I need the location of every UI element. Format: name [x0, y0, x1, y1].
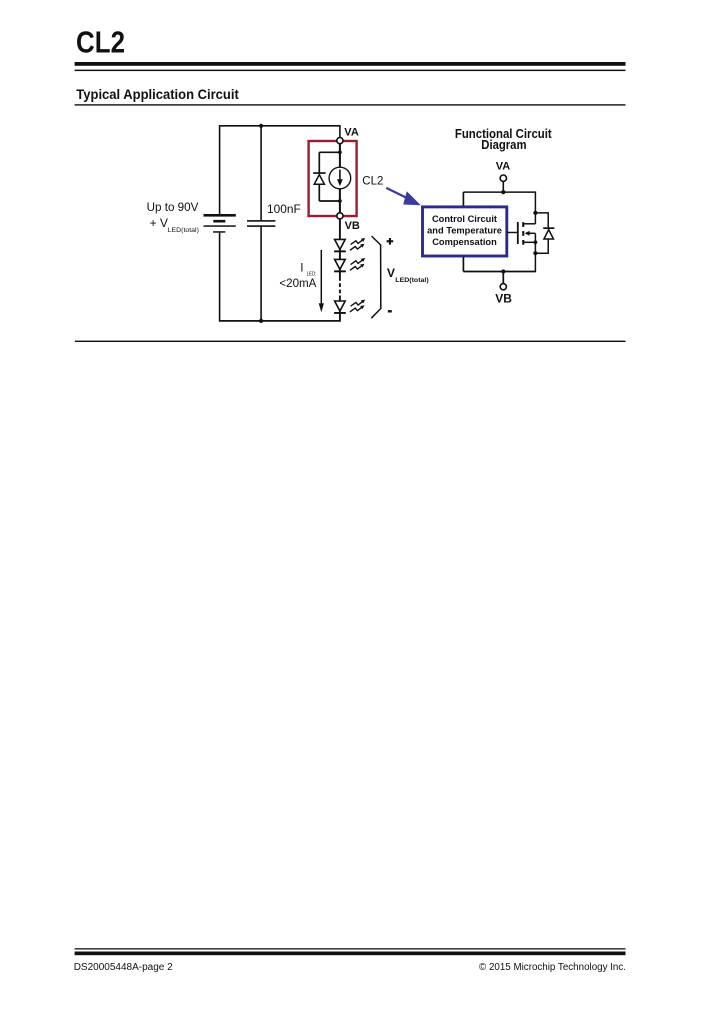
wire bottom rail	[220, 320, 340, 322]
wire capacitor bottom	[260, 227, 262, 321]
wire shunt diode branch left upper	[318, 152, 320, 173]
LED D4 light arrows	[351, 300, 366, 307]
wire shunt diode branch top	[319, 151, 340, 153]
svg-text:Diagram: Diagram	[481, 137, 526, 152]
wire LED chain bottom	[339, 296, 341, 322]
wire diode branch top	[535, 213, 548, 228]
capacitor C1 100nF	[247, 220, 275, 227]
header thin rule	[75, 70, 626, 72]
pointer arrow CL2 to block	[386, 188, 421, 205]
wire LED chain top	[339, 219, 341, 277]
junction bottom rail / capacitor	[259, 319, 263, 323]
svg-text:© 2015 Microchip Technology In: © 2015 Microchip Technology Inc.	[479, 962, 626, 973]
wire main vertical VA branch	[339, 125, 341, 140]
node VB terminal circle	[337, 213, 343, 219]
svg-text:CL2: CL2	[76, 24, 125, 59]
wire capacitor top	[260, 126, 262, 220]
junction diode bottom tap	[533, 251, 537, 255]
wire shunt diode branch bottom	[319, 200, 340, 202]
wire box top	[462, 192, 464, 206]
junction CL2 top	[338, 150, 342, 154]
current arrow ILED	[319, 250, 324, 312]
svg-text:VB: VB	[345, 220, 360, 232]
wire drain vertical	[534, 191, 536, 223]
header thick rule	[75, 62, 626, 66]
label minus	[388, 310, 392, 312]
svg-text:DS20005448A-page 2: DS20005448A-page 2	[74, 962, 173, 973]
LED D3	[334, 259, 346, 272]
svg-text:+ V: + V	[150, 216, 168, 230]
svg-text:Typical Application Circuit: Typical Application Circuit	[76, 86, 239, 102]
svg-text:CL2: CL2	[362, 176, 383, 188]
junction VB rail	[501, 269, 505, 273]
junction VA rail	[501, 190, 505, 194]
svg-text:and Temperature: and Temperature	[427, 226, 502, 236]
svg-text:100nF: 100nF	[267, 203, 301, 216]
bracket VLED(total)	[371, 236, 381, 318]
LED D2 light arrows	[351, 238, 366, 245]
svg-text:VA: VA	[344, 126, 359, 138]
wire top rail	[220, 125, 340, 127]
junction CL2 bottom	[338, 199, 342, 203]
wire shunt diode branch left lower	[318, 184, 320, 201]
transistor Q1 source stub	[524, 241, 535, 243]
transistor Q1 channel segments	[522, 222, 524, 227]
svg-text:Control Circuit: Control Circuit	[432, 214, 497, 224]
svg-text:Up to 90V: Up to 90V	[147, 201, 199, 214]
wire diode branch bottom	[535, 239, 548, 253]
footer thick rule	[75, 952, 626, 956]
svg-text:Compensation: Compensation	[432, 237, 497, 247]
LED D4	[334, 301, 346, 314]
transistor Q1 body stub with arrow	[528, 232, 535, 234]
battery B1	[204, 214, 236, 233]
svg-text:LED(total): LED(total)	[395, 277, 428, 284]
CL2 device red box	[309, 141, 357, 216]
junction top rail / capacitor	[259, 124, 263, 128]
junction diode top tap	[533, 211, 537, 215]
wire battery top	[219, 125, 221, 214]
node VA right terminal	[500, 175, 506, 181]
LED D2	[334, 239, 346, 252]
node VB right terminal	[500, 284, 506, 290]
current source I1	[329, 167, 351, 189]
wire LED chain dashed	[339, 277, 341, 296]
wire top rail right	[463, 191, 535, 193]
node VA terminal circle	[337, 138, 343, 144]
wire VA to top rail	[502, 182, 504, 193]
wire source vertical	[534, 242, 536, 272]
svg-text:I: I	[300, 261, 303, 274]
transistor Q1 gate bar	[517, 222, 519, 244]
wire VB from rail	[502, 272, 504, 284]
mid page rule below figure	[75, 341, 626, 342]
wire bottom rail right	[463, 271, 535, 273]
wire box bottom	[462, 257, 464, 272]
wire battery bottom	[219, 233, 221, 322]
svg-text:LED(total): LED(total)	[168, 227, 199, 234]
section heading rule	[75, 104, 626, 105]
LED D3 light arrows	[351, 258, 366, 265]
wire CL2 internal vertical	[339, 140, 341, 216]
transistor Q1 drain stub	[524, 223, 535, 225]
label plus	[387, 238, 394, 245]
control block U1	[423, 207, 507, 256]
svg-text:VA: VA	[496, 160, 511, 172]
footer thin rule	[75, 948, 626, 949]
svg-text:VB: VB	[495, 292, 512, 306]
junction source stub	[534, 240, 538, 244]
svg-text:<20mA: <20mA	[279, 277, 316, 290]
diode D5 body diode	[543, 227, 554, 239]
diode D1 (internal shunt)	[313, 172, 325, 184]
wire gate	[507, 232, 517, 234]
